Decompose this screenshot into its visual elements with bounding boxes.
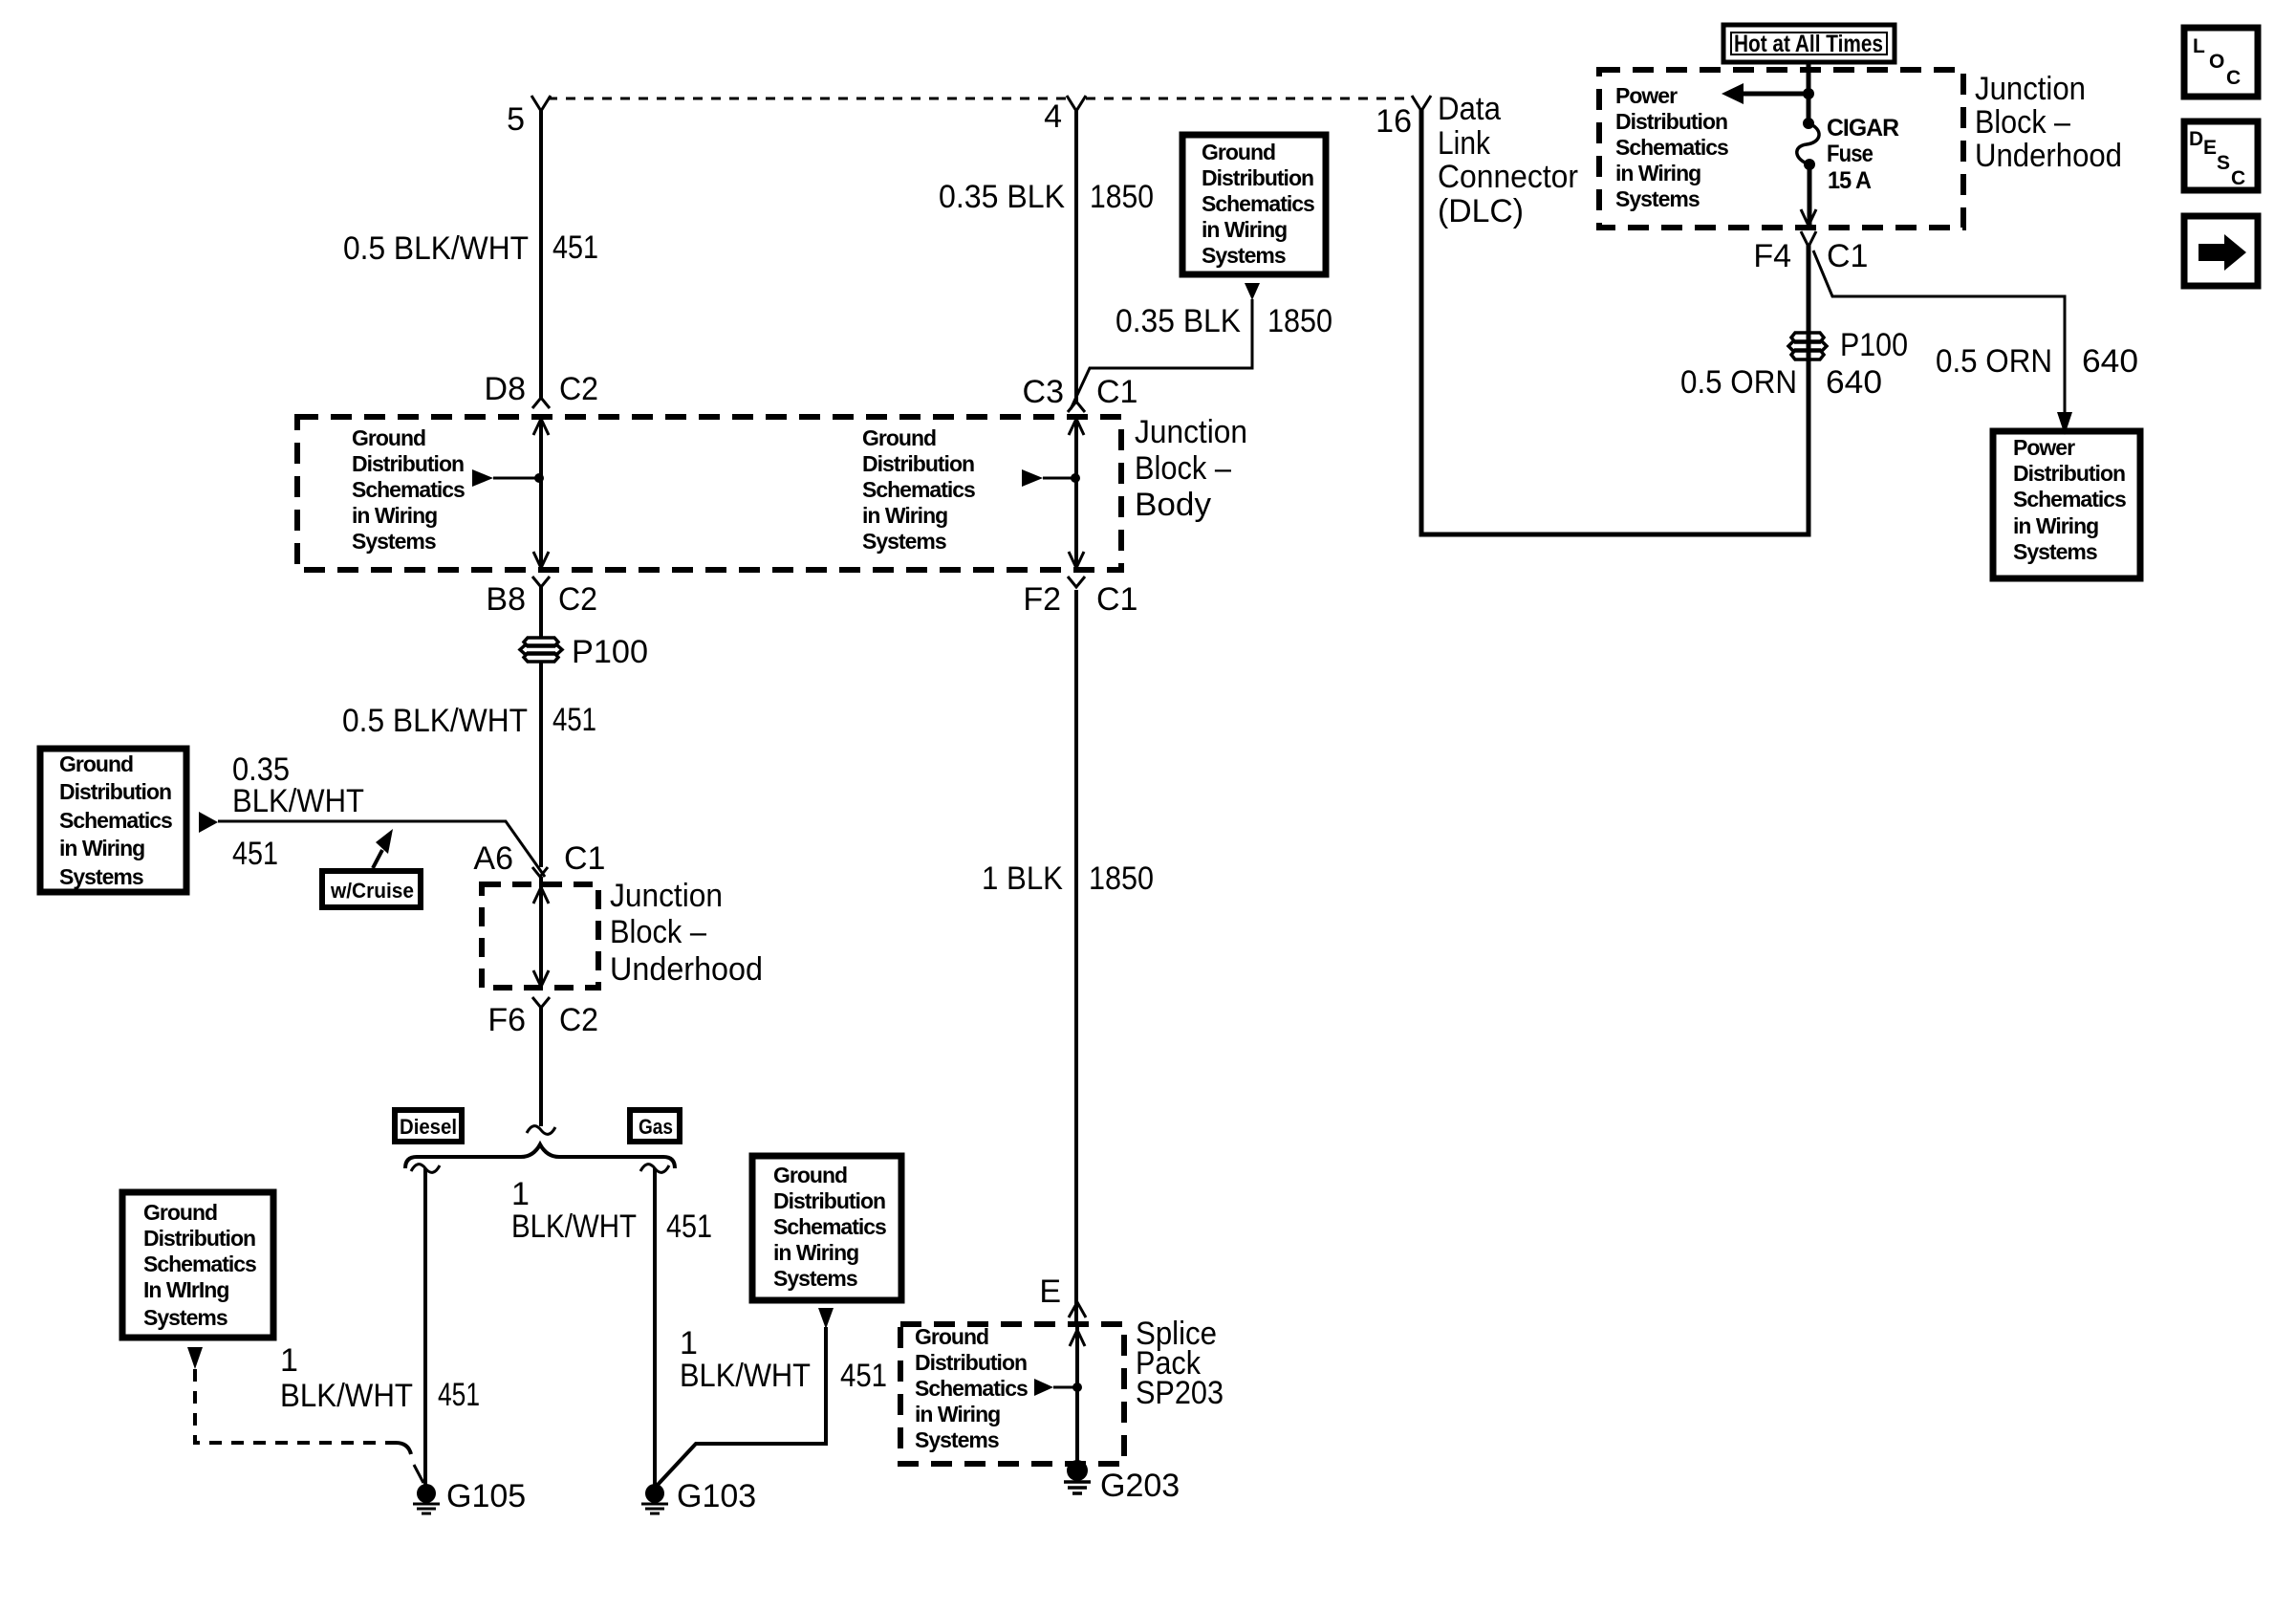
ground G203: [1067, 1460, 1088, 1481]
svg-text:Junction: Junction: [1975, 71, 2086, 107]
reference box: Ground Distribution Schematics (gas, middle): [752, 1156, 901, 1300]
svg-text:Systems: Systems: [352, 529, 436, 554]
svg-text:B8: B8: [486, 581, 526, 618]
svg-text:CIGAR: CIGAR: [1827, 115, 1899, 142]
branch wire: 0.5 ORN 640 to Power Distribution: [1813, 250, 2065, 413]
svg-text:in Wiring: in Wiring: [1615, 161, 1700, 185]
svg-text:1850: 1850: [1267, 303, 1332, 339]
svg-text:(DLC): (DLC): [1438, 193, 1524, 229]
svg-text:C1: C1: [1096, 374, 1137, 410]
wire: 0.5 ORN 640 from DLC pin 16 to P100: [1421, 109, 1809, 534]
tag Gas: [630, 1110, 680, 1142]
wire down to split: [539, 1008, 543, 1126]
svg-text:Ground: Ground: [915, 1324, 988, 1349]
svg-text:Schematics: Schematics: [352, 477, 465, 502]
connector E at splice pack: [1069, 1302, 1086, 1317]
svg-text:C1: C1: [1096, 581, 1137, 618]
wire P100 down to A6: [539, 662, 543, 867]
connector D8 / C2 at Junction Block Body: [532, 398, 550, 408]
wire: gas 1 BLK/WHT 451 to G103: [653, 1168, 657, 1488]
svg-text:15 A: 15 A: [1828, 167, 1872, 194]
svg-text:Power: Power: [1615, 83, 1678, 108]
ground G103: [645, 1484, 664, 1503]
svg-text:in Wiring: in Wiring: [915, 1402, 1000, 1426]
svg-text:Distribution: Distribution: [2013, 461, 2125, 486]
svg-text:Distribution: Distribution: [915, 1350, 1027, 1375]
svg-text:C2: C2: [559, 371, 598, 407]
svg-text:Link: Link: [1438, 125, 1491, 162]
svg-text:C: C: [2226, 67, 2241, 89]
connector F4 / C1: [1801, 231, 1816, 247]
svg-text:C3: C3: [1023, 374, 1064, 410]
w/Cruise tag: [322, 871, 421, 907]
fuse CIGAR 15 A: [1803, 118, 1814, 129]
svg-text:F4: F4: [1753, 238, 1791, 274]
svg-text:In WIrIng: In WIrIng: [143, 1277, 228, 1302]
svg-text:Junction: Junction: [1135, 414, 1247, 450]
svg-text:0.35 BLK: 0.35 BLK: [1116, 303, 1241, 339]
svg-text:S: S: [2217, 152, 2230, 174]
svg-text:Schematics: Schematics: [773, 1214, 886, 1239]
svg-text:in Wiring: in Wiring: [2013, 513, 2098, 538]
junction block underhood (top right): dashed outline: [1599, 70, 1963, 228]
connector pin 5 (DLC cavity 5): [531, 96, 551, 111]
svg-text:E: E: [2203, 137, 2217, 159]
junction block body: dashed outline: [297, 417, 1121, 570]
svg-text:5: 5: [507, 101, 525, 138]
svg-text:1: 1: [680, 1325, 698, 1361]
ground G105: [417, 1484, 436, 1503]
connector C3 / C1 at Junction Block Body: [1068, 402, 1085, 412]
svg-text:640: 640: [2082, 343, 2138, 380]
svg-text:Block –: Block –: [610, 914, 706, 950]
svg-text:640: 640: [1826, 364, 1882, 401]
arrow below box: [187, 1347, 203, 1369]
svg-text:Schematics: Schematics: [1202, 191, 1314, 216]
svg-text:0.5 ORN: 0.5 ORN: [1680, 364, 1797, 401]
wire inside splice pack: [1075, 1325, 1079, 1467]
svg-text:Distribution: Distribution: [862, 451, 974, 476]
reference box: Ground Distribution Schematics (bottom far left): [122, 1192, 273, 1338]
svg-text:Distribution: Distribution: [352, 451, 464, 476]
svg-text:Systems: Systems: [1615, 186, 1700, 211]
svg-text:Ground: Ground: [862, 425, 936, 450]
svg-text:C2: C2: [558, 581, 597, 618]
tag Hot at All Times: [1723, 25, 1895, 62]
svg-text:Schematics: Schematics: [59, 808, 172, 833]
wire: 0.35 BLK 1850 branch into C3/C1: [1071, 299, 1252, 409]
dashed wire from box toward diesel ground: [195, 1369, 396, 1443]
arrow from box to branch wire: [199, 812, 218, 833]
junction dot (right wire): [1071, 473, 1080, 483]
svg-text:L: L: [2193, 35, 2205, 57]
brace splitting Diesel / Gas: [405, 1144, 675, 1168]
svg-text:1: 1: [280, 1342, 298, 1379]
svg-text:F6: F6: [487, 1002, 526, 1038]
wire: 0.35 BLK/WHT 451 branch: [218, 821, 545, 877]
connector B8 / C2: [532, 577, 550, 587]
svg-text:Systems: Systems: [143, 1305, 227, 1330]
svg-text:0.5 BLK/WHT: 0.5 BLK/WHT: [343, 230, 529, 267]
grommet P100 (left): [520, 638, 562, 662]
arrow to wire (right): [1022, 469, 1043, 487]
wire: top dashed bus from DLC pin 5 to pin 4: [548, 98, 1067, 100]
svg-text:P100: P100: [572, 634, 648, 670]
break symbol on gas wire: [640, 1165, 669, 1173]
svg-text:in Wiring: in Wiring: [862, 503, 947, 528]
arrow to wire (left): [472, 469, 493, 487]
svg-text:Systems: Systems: [59, 864, 143, 889]
svg-text:Hot at All Times: Hot at All Times: [1734, 31, 1883, 57]
svg-text:451: 451: [840, 1358, 887, 1394]
svg-text:Distribution: Distribution: [773, 1188, 885, 1213]
wire: 1 BLK 1850 from F2 down to splice pack E: [1074, 590, 1078, 1323]
svg-text:451: 451: [232, 836, 278, 872]
svg-text:C2: C2: [559, 1002, 598, 1038]
svg-text:Ground: Ground: [1202, 140, 1275, 164]
svg-text:Body: Body: [1135, 487, 1211, 523]
svg-text:Gas: Gas: [639, 1115, 673, 1139]
wire from Hot at All Times down: [1807, 61, 1811, 120]
svg-text:Ground: Ground: [143, 1200, 217, 1225]
svg-text:Systems: Systems: [915, 1427, 999, 1452]
svg-text:A6: A6: [473, 840, 513, 877]
svg-text:Schematics: Schematics: [862, 477, 975, 502]
svg-text:BLK/WHT: BLK/WHT: [280, 1378, 413, 1414]
svg-text:D: D: [2189, 128, 2203, 150]
connector pin 4 (DLC cavity 4): [1067, 96, 1086, 111]
svg-text:G105: G105: [446, 1478, 526, 1514]
svg-text:D8: D8: [485, 371, 526, 407]
junction dot (splice): [1072, 1382, 1082, 1392]
svg-text:C1: C1: [564, 840, 605, 877]
svg-text:Systems: Systems: [1202, 243, 1286, 268]
svg-text:P100: P100: [1840, 327, 1908, 363]
svg-text:Schematics: Schematics: [1615, 135, 1728, 160]
wire through JB body (left) with arrows: [539, 418, 543, 568]
connector F2 / C1: [1068, 577, 1085, 587]
arrow to wire (splice pack): [1034, 1379, 1053, 1396]
grommet P100 (right): [1788, 333, 1827, 359]
DESC legend box: [2184, 121, 2258, 190]
connector F6 / C2: [532, 997, 550, 1008]
svg-text:Schematics: Schematics: [915, 1376, 1028, 1401]
junction block underhood (small): dashed outline: [482, 884, 598, 988]
svg-text:BLK/WHT: BLK/WHT: [232, 783, 364, 819]
svg-text:in Wiring: in Wiring: [59, 836, 144, 860]
reference box: Power Distribution Schematics (bottom right): [1993, 431, 2140, 578]
svg-text:w/Cruise: w/Cruise: [330, 879, 414, 903]
svg-text:Diesel: Diesel: [400, 1115, 457, 1139]
svg-text:1 BLK: 1 BLK: [982, 860, 1063, 897]
svg-text:E: E: [1039, 1274, 1061, 1310]
svg-text:G203: G203: [1100, 1468, 1180, 1504]
wire arrow to power distribution: [1740, 92, 1807, 97]
svg-text:Distribution: Distribution: [1615, 109, 1727, 134]
splice pack SP203: dashed outline: [900, 1324, 1124, 1464]
svg-text:C1: C1: [1827, 238, 1868, 274]
arrow legend box: [2184, 216, 2258, 286]
break symbol (tilde) on main wire: [527, 1126, 555, 1135]
connector A6 / C1: [532, 867, 548, 877]
reference box: Ground Distribution Schematics (far left): [40, 749, 186, 892]
svg-text:16: 16: [1375, 103, 1412, 140]
svg-text:451: 451: [438, 1377, 480, 1413]
svg-text:Schematics: Schematics: [2013, 487, 2126, 512]
wire from F4 down through P100 (upper part): [1807, 245, 1811, 354]
connector pin 16 (DLC cavity 16): [1412, 96, 1431, 111]
svg-text:C: C: [2231, 167, 2245, 189]
svg-text:Distribution: Distribution: [1202, 165, 1313, 190]
svg-text:Block –: Block –: [1975, 104, 2070, 141]
arrow below box: [818, 1308, 834, 1329]
junction dot: [1803, 88, 1814, 99]
svg-text:451: 451: [552, 702, 596, 738]
junction dot (left wire): [534, 473, 544, 483]
svg-text:in Wiring: in Wiring: [352, 503, 437, 528]
wire from B8 to P100: [539, 587, 543, 638]
svg-text:Data: Data: [1438, 91, 1501, 127]
svg-text:Fuse: Fuse: [1827, 141, 1874, 167]
svg-text:Ground: Ground: [59, 751, 133, 776]
svg-text:Distribution: Distribution: [143, 1226, 255, 1251]
svg-text:Ground: Ground: [773, 1163, 847, 1187]
svg-text:Block –: Block –: [1135, 450, 1231, 487]
wire from box to gas ground: [657, 1327, 826, 1486]
svg-text:G103: G103: [677, 1478, 756, 1514]
svg-text:O: O: [2209, 51, 2224, 73]
wire through JB body (right) with arrows: [1074, 418, 1078, 568]
svg-text:Power: Power: [2013, 435, 2075, 460]
svg-text:Distribution: Distribution: [59, 779, 171, 804]
svg-text:Systems: Systems: [2013, 539, 2097, 564]
svg-text:0.35 BLK: 0.35 BLK: [939, 179, 1065, 215]
svg-text:Ground: Ground: [352, 425, 425, 450]
svg-text:BLK/WHT: BLK/WHT: [511, 1208, 637, 1245]
svg-text:Schematics: Schematics: [143, 1252, 256, 1276]
wire through JB underhood with arrows: [539, 877, 543, 987]
svg-text:0.5 ORN: 0.5 ORN: [1936, 343, 2052, 380]
wire: 0.5 BLK/WHT 451 from pin 5 down to D8: [539, 109, 543, 398]
svg-text:Underhood: Underhood: [1975, 138, 2122, 174]
svg-text:BLK/WHT: BLK/WHT: [680, 1358, 811, 1394]
reference box: Ground Distribution Schematics (top middle): [1182, 135, 1326, 274]
wire: diesel 1 BLK/WHT 451 to G105: [423, 1168, 427, 1488]
svg-text:451: 451: [666, 1208, 712, 1245]
svg-text:1: 1: [511, 1176, 530, 1212]
svg-text:in Wiring: in Wiring: [1202, 217, 1287, 242]
wire: top dashed bus from pin 4 to pin 16: [1086, 98, 1413, 100]
svg-text:1850: 1850: [1090, 179, 1154, 215]
svg-text:Systems: Systems: [773, 1266, 857, 1291]
wire from fuse to F4: [1808, 164, 1812, 226]
svg-text:SP203: SP203: [1136, 1375, 1224, 1411]
svg-text:in Wiring: in Wiring: [773, 1240, 858, 1265]
svg-text:F2: F2: [1023, 581, 1061, 618]
svg-text:451: 451: [552, 229, 598, 266]
svg-text:0.5 BLK/WHT: 0.5 BLK/WHT: [342, 703, 528, 739]
svg-text:4: 4: [1044, 98, 1062, 135]
LOC legend box: [2184, 28, 2258, 97]
arrow from box down to branch wire: [1245, 283, 1260, 300]
tag Diesel: [395, 1110, 462, 1142]
svg-text:Junction: Junction: [610, 878, 723, 914]
svg-text:Systems: Systems: [862, 529, 946, 554]
break symbol on diesel wire: [411, 1165, 440, 1173]
wire: 0.35 BLK 1850 from pin 4 down to C3: [1074, 109, 1078, 402]
svg-text:Connector: Connector: [1438, 159, 1578, 195]
svg-text:1850: 1850: [1089, 860, 1154, 897]
svg-text:Underhood: Underhood: [610, 951, 763, 988]
